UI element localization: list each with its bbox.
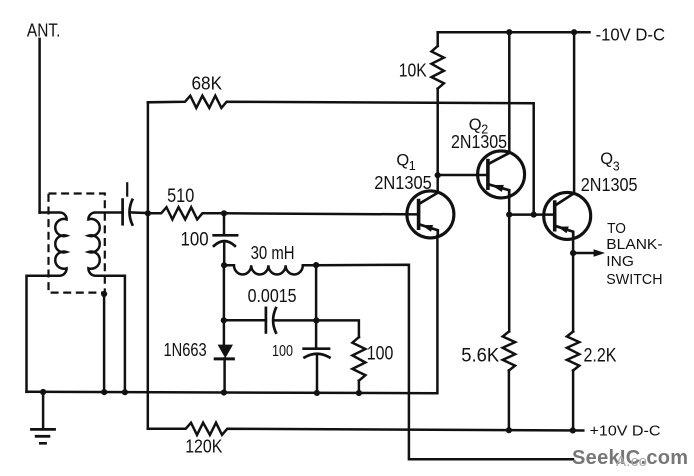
svg-text:100: 100: [272, 343, 293, 360]
svg-text:TO: TO: [607, 220, 626, 237]
svg-text:5.6K: 5.6K: [461, 346, 499, 367]
svg-text:120K: 120K: [185, 436, 223, 457]
svg-text:0.0015: 0.0015: [248, 285, 297, 306]
svg-text:2N1305: 2N1305: [581, 174, 638, 195]
svg-text:Q: Q: [600, 150, 613, 168]
svg-text:Q: Q: [396, 152, 409, 170]
svg-text:+10V D-C: +10V D-C: [590, 423, 661, 440]
svg-text:30 mH: 30 mH: [251, 243, 295, 263]
svg-text:68K: 68K: [192, 73, 223, 93]
svg-text:100: 100: [367, 344, 394, 365]
svg-text:ANT.: ANT.: [27, 20, 61, 41]
svg-text:510: 510: [167, 185, 194, 207]
svg-text:3: 3: [613, 160, 620, 174]
svg-text:-10V D-C: -10V D-C: [596, 25, 666, 45]
svg-text:2N1305: 2N1305: [374, 172, 432, 193]
svg-text:A.co: A.co: [616, 453, 647, 470]
svg-text:ING: ING: [606, 253, 634, 270]
svg-text:2.2K: 2.2K: [584, 346, 617, 367]
svg-text:SWITCH: SWITCH: [606, 271, 662, 288]
svg-text:BLANK-: BLANK-: [606, 236, 662, 253]
svg-text:1N663: 1N663: [164, 339, 207, 360]
svg-text:1: 1: [409, 159, 416, 173]
svg-text:10K: 10K: [399, 60, 428, 81]
svg-text:2N1305: 2N1305: [451, 131, 507, 152]
svg-text:100: 100: [181, 228, 209, 250]
